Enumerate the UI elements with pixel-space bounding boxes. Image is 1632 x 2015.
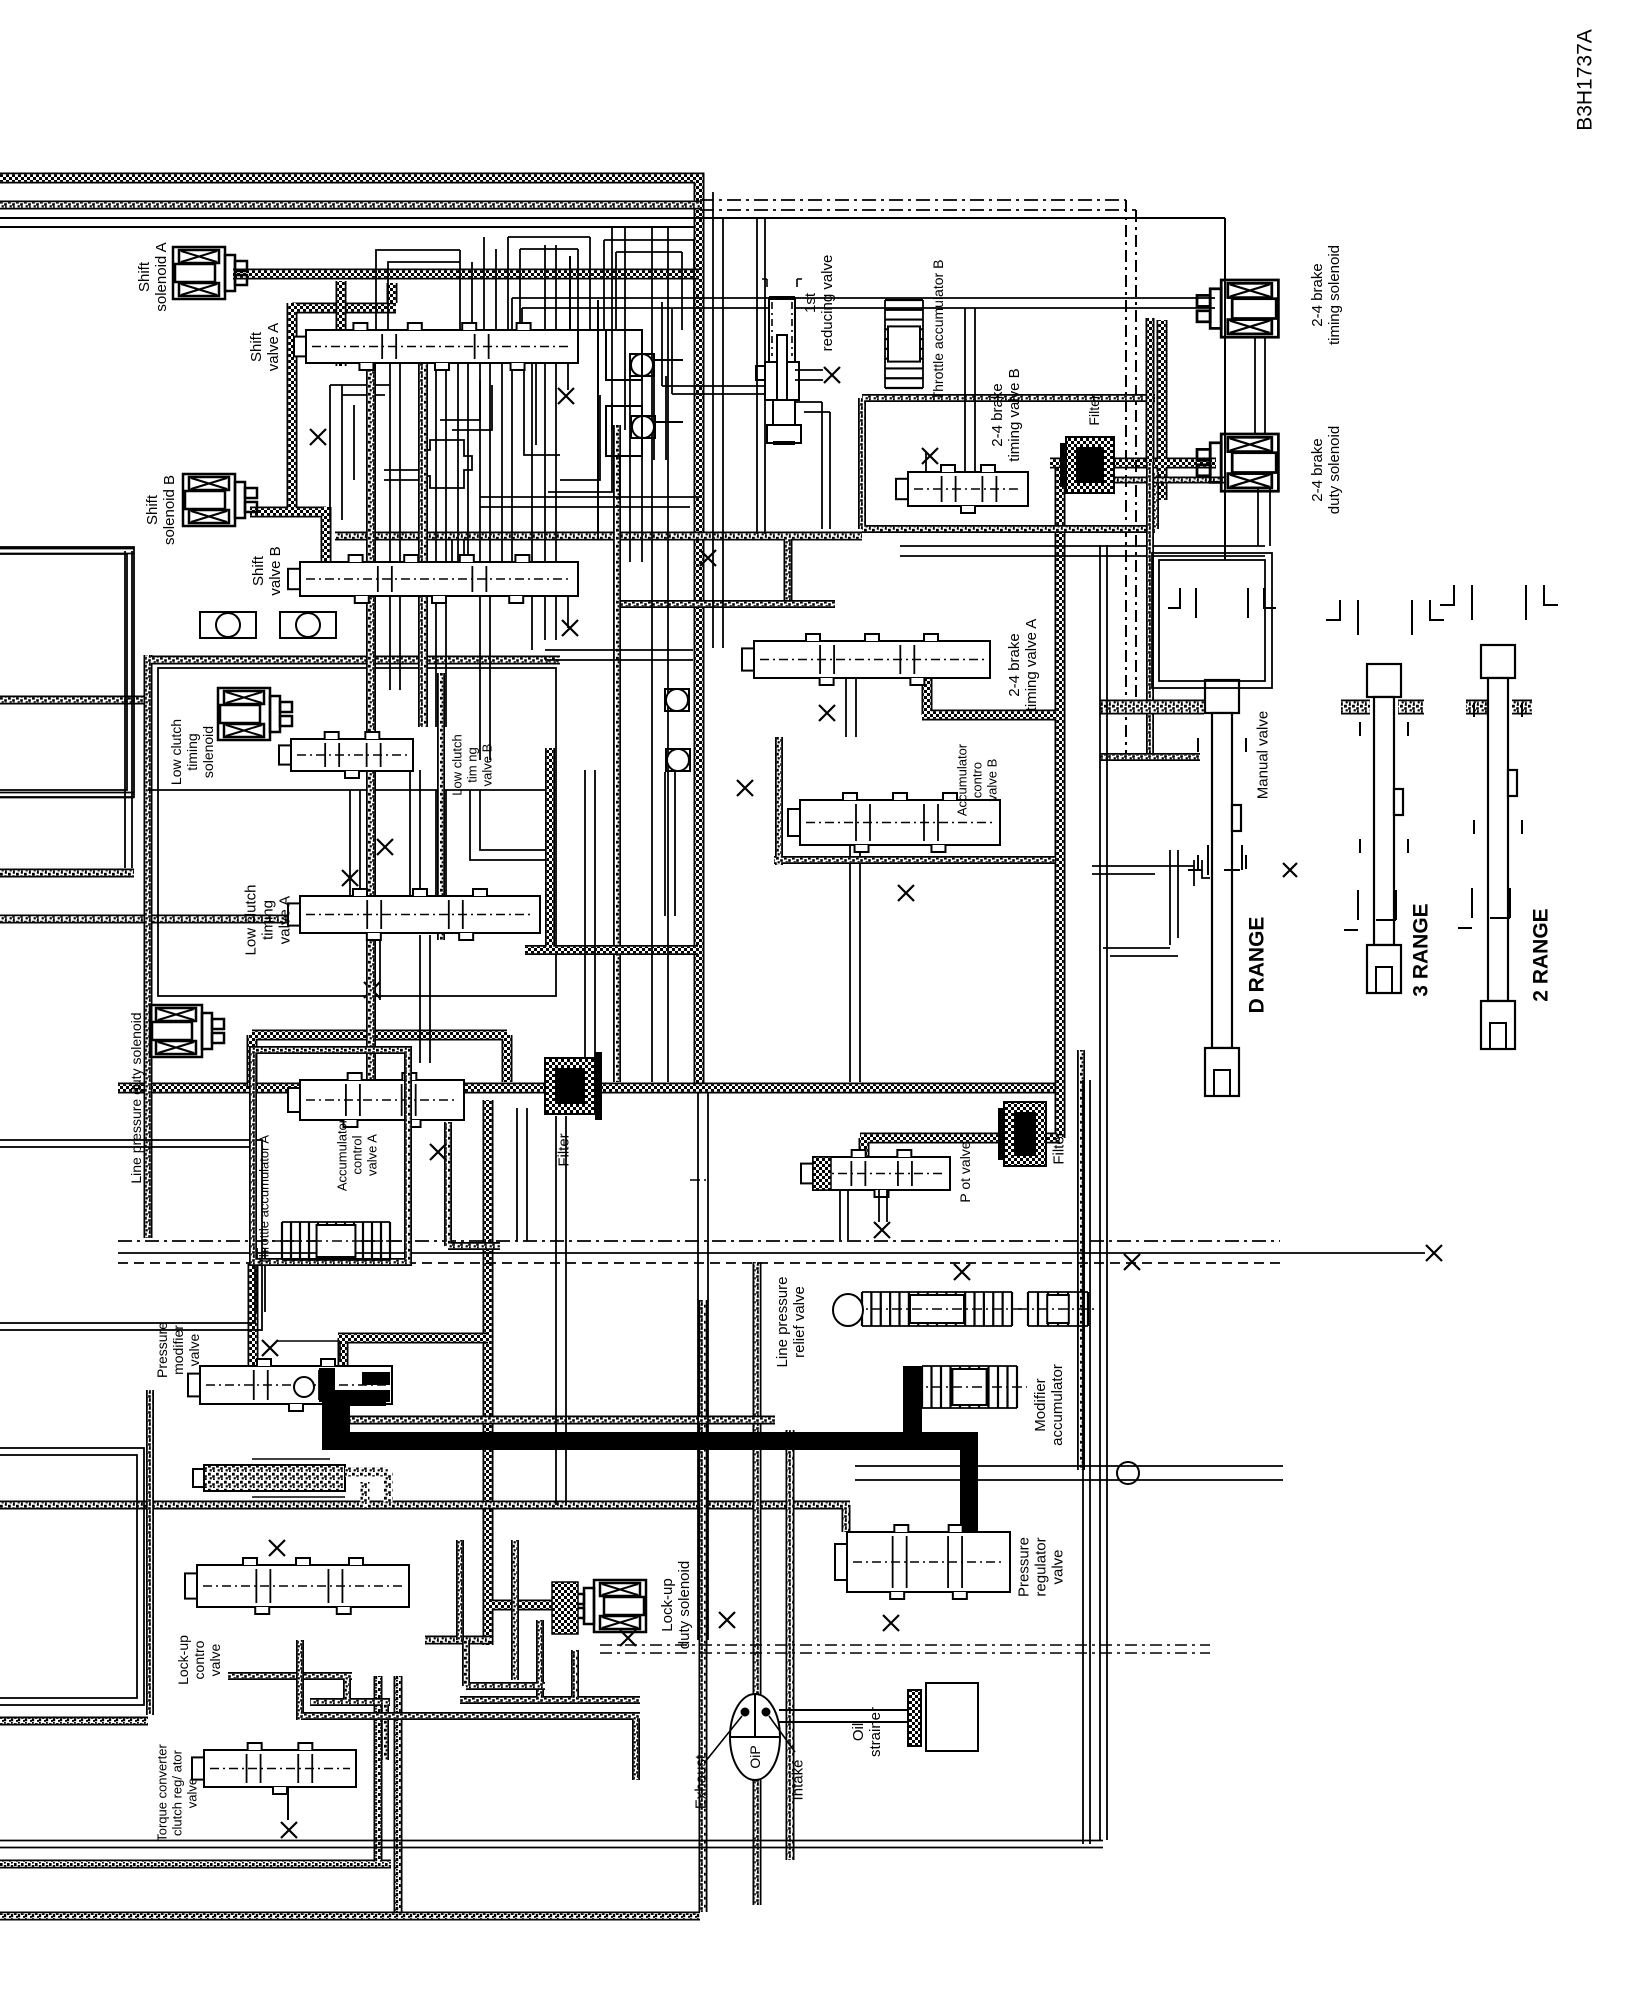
svg-text:Accumulator: Accumulator [955,743,970,816]
wire stipple vertical A [366,363,376,1080]
valve lock-up control valve [185,1558,409,1614]
node manual valve housing box [1152,553,1272,688]
svg-text:Oil: Oil [850,1723,867,1741]
svg-text:duty solenoid: duty solenoid [676,1561,693,1649]
valve shift valve B [288,555,578,603]
svg-text:Low clutch: Low clutch [168,719,184,785]
wire accumulator drop pair [257,1248,265,1312]
valve manual valve (D range) [1198,680,1246,1096]
wire modifier black pipe (thick) [322,1366,978,1592]
wire bottom return line 1 [0,1676,398,1916]
wire right interconnect verticals [545,227,668,1082]
wire left frame line 1 [0,696,152,705]
wire manual valve lower channel [1100,753,1200,761]
svg-text:Lock-up: Lock-up [175,1635,191,1685]
wire shift valve A inlet pipe [336,281,347,366]
filter pilot filter [998,1102,1046,1166]
svg-text:Low clutch: Low clutch [450,734,465,795]
svg-text:timing: timing [184,733,200,770]
svg-text:OiP: OiP [747,1745,763,1768]
valve low clutch timing valve B [279,732,413,778]
wire lock-up control plumbing [228,1676,390,1760]
exhaust X [922,448,938,464]
wire right vertical dash line [1126,200,1136,757]
svg-text:Line pressure duty solenoid: Line pressure duty solenoid [128,1012,144,1183]
wire oil pump suction line [703,1262,790,1912]
svg-text:2 RANGE: 2 RANGE [1529,908,1552,1001]
wire 2-4 timing feed vertical (hatched) [1146,318,1155,463]
wire regulator feedback line [855,1466,1283,1480]
wire shift valve B outlet line [335,536,862,604]
svg-text:Accumulator: Accumulator [335,1118,350,1191]
filter oil strainer [779,1683,978,1751]
node low clutch assembly box [148,668,556,996]
exhaust X [364,982,380,998]
wire line pressure solid line [118,1252,1425,1254]
svg-text:Pressure: Pressure [1015,1537,1032,1597]
wire 2-4 brake box frame (stippled) [862,398,1155,529]
wire pressure modifier feed pipe [248,1264,259,1378]
svg-text:valve A: valve A [276,896,293,944]
wire manual valve inlet channel [1100,700,1204,715]
solenoid line pressure duty solenoid [150,1005,224,1057]
svg-text:solenoid B: solenoid B [161,475,178,545]
node left apply block (rectangle) [0,1140,262,1330]
svg-text:Shift: Shift [250,555,267,586]
wire 2-4 brake timing valve A outlet pipe [922,660,1056,715]
wire filter drop pair [556,1116,566,1505]
solenoid lock-up duty solenoid [572,1580,646,1632]
valve low clutch timing valve A [288,889,540,940]
node range port brackets [1168,585,1558,930]
svg-text:valve: valve [185,1778,200,1808]
valve pressure modifier valve [188,1359,392,1411]
exhaust X [824,367,840,383]
svg-text:Low clutch: Low clutch [242,885,259,956]
wire 2-4 timing solenoid feed [512,218,1215,534]
exhaust X [310,429,326,445]
wire duty solenoid return line [1085,477,1225,484]
wire D range port line [1092,860,1210,886]
svg-text:valve B: valve B [267,546,284,595]
svg-text:Modifier: Modifier [1032,1378,1049,1431]
svg-text:Pressure: Pressure [154,1322,170,1378]
wire manual valve left elbow [1103,850,1178,956]
exhaust X [620,1630,636,1646]
wire modifier X bracket [277,1341,340,1360]
svg-text:Shift: Shift [144,494,161,525]
exhaust X [1283,863,1297,877]
svg-text:solenoid: solenoid [200,726,216,778]
wire manual valve feed vertical [1146,463,1154,757]
svg-text:Filter: Filter [1050,1131,1067,1164]
exhaust X [262,1340,278,1356]
svg-text:valve A: valve A [365,1134,380,1176]
svg-text:Shift: Shift [136,261,153,292]
wire left frame lower edge [0,793,134,798]
wire 2-4 brake frame lower [615,600,835,608]
wire accumulator control valve B frame [774,737,1055,865]
wire 2-4 box to manual valve lines [900,546,1265,556]
exhaust X [874,1222,890,1238]
svg-text:valve: valve [1049,1549,1066,1584]
node left servo block (rectangle) [0,1448,144,1705]
wire converter return plumbing [300,1640,640,1780]
svg-text:B3H1737A: B3H1737A [1573,29,1596,131]
svg-text:timing valve A: timing valve A [1023,619,1040,712]
wire main body bottom edge [0,1841,1103,1848]
svg-text:2-4 brake: 2-4 brake [1309,438,1326,501]
svg-text:relief valve: relief valve [791,1286,808,1358]
svg-text:strainer: strainer [867,1707,884,1757]
svg-text:2-4 brake: 2-4 brake [1309,263,1326,326]
svg-text:accumulator: accumulator [1049,1364,1066,1446]
svg-text:Throttle accumulator B: Throttle accumulator B [930,260,946,401]
svg-text:timing: timing [259,900,276,940]
wire regulator dash bundle [600,1645,1210,1653]
svg-text:solenoid A: solenoid A [153,242,170,311]
wire low clutch valve B drop (stipple) [437,673,445,940]
exhaust X [342,870,358,886]
svg-text:Lock-up: Lock-up [659,1578,676,1631]
wire low clutch outlet pipe (hatched) [525,748,698,950]
wire left frame line 2 [0,869,134,878]
svg-text:Manual valve: Manual valve [1254,711,1271,799]
svg-text:Line pressure: Line pressure [774,1277,791,1368]
valve 2-4 brake timing valve A [742,634,990,685]
wire torque converter in line [0,1717,148,1726]
solenoid shift solenoid B [183,474,257,526]
node document number B3H1737A [1573,29,1596,131]
node central ladder frames upper [376,237,590,330]
capacitor throttle accumulator A spring [272,1222,400,1260]
wire lock-up apply line [322,1416,775,1425]
wire main line pressure pipe (top, hatched) [0,178,699,1086]
svg-text:Intake: Intake [789,1760,806,1801]
wire lock-up duty solenoid pipe [488,1100,556,1645]
svg-text:D RANGE: D RANGE [1245,917,1268,1014]
wire reducing valve outlet elbow [796,402,830,529]
wire pilot pressure main pipe (horizontal, hatched) [118,1083,1058,1094]
exhaust X [737,780,753,796]
wire center feed verticals [713,192,723,648]
wire line pressure duty pipe to filter [252,1035,507,1086]
svg-text:valve: valve [207,1643,223,1676]
valve shift valve A [294,323,578,370]
valve 2-4 brake timing valve B [896,465,1028,513]
wire left frame right edge [125,551,132,868]
wire lockup drain stub [425,1636,490,1645]
wire stipple vertical B [418,363,428,727]
svg-text:reducing valve: reducing valve [819,255,836,352]
pump oil pump [705,1694,795,1780]
wire shift solenoid B branch pipe [250,283,396,596]
svg-text:Filter: Filter [555,1133,572,1166]
exhaust X [898,885,914,901]
svg-text:duty solenoid: duty solenoid [1326,426,1343,514]
wire 2 range inlet channel [1466,700,1532,715]
solenoid 2-4 brake timing solenoid [1197,280,1278,337]
svg-text:P ot valve: P ot valve [957,1141,973,1202]
node check ball housings [200,256,683,638]
svg-text:2-4 brake: 2-4 brake [989,383,1006,446]
exhaust X [281,1822,297,1838]
exhaust X [700,550,716,566]
wire 3 range inlet channel [1341,700,1424,715]
svg-text:contro: contro [191,1640,207,1679]
svg-text:Torque converter: Torque converter [155,1744,170,1842]
filter 2-4 brake filter [1060,437,1114,493]
svg-text:control: control [350,1135,365,1174]
exhaust X [954,1264,970,1280]
exhaust X [562,620,578,636]
capacitor modifier accumulator spring [912,1366,1027,1408]
node left clutch block (rectangle) [0,547,134,797]
wire line pressure dash line [118,1240,1280,1242]
filter main filter [545,1052,602,1120]
svg-text:Throttle accumulator A: Throttle accumulator A [257,1135,272,1265]
valve 1st reducing valve (vertical) [756,279,823,443]
wire left frame vertical (lower) [146,1390,154,1715]
svg-text:Shift: Shift [248,331,265,362]
valve pressure regulator valve [835,1525,1010,1599]
wire torque converter supply line (stippled) [0,201,700,210]
wire left frame top edge [0,549,134,554]
wire center channel vertical pair (below junction) [698,1093,708,1640]
wire low clutch box border (stippled) [148,655,560,1238]
wire pilot valve stems [840,1190,887,1240]
exhaust X [1124,1254,1140,1270]
wire lock-up valve verticals [460,1540,640,1700]
solenoid low clutch timing solenoid [218,688,292,740]
exhaust X [819,705,835,721]
solenoid 2-4 brake duty solenoid [1197,434,1278,491]
valve manual valve 3 range [1360,664,1408,993]
exhaust X [269,1540,285,1556]
valve lock-up accumulator piston (stipple filled) [193,1459,388,1508]
solenoid lock-up duty hatched mount [552,1582,578,1634]
node check ball circles [216,354,1139,1484]
svg-text:valve B: valve B [480,744,495,787]
svg-text:valve A: valve A [265,323,282,371]
wire main body right edge pair 2 [1100,545,1107,1840]
svg-text:timing valve B: timing valve B [1006,368,1023,461]
valve pilot valve hatched end [813,1157,831,1190]
wire accumulator valve A drain [448,1122,500,1246]
exhaust X [719,1612,735,1628]
wire throttle accumulator A frame [253,1050,408,1262]
wire converter pressure line (bottom stippled) [0,1505,850,1532]
wire shift valve interconnect verticals [390,363,512,562]
exhaust X [1426,1245,1442,1261]
wire valve A to B verticals right [532,363,568,562]
exhaust X [430,1144,446,1160]
exhaust X [558,388,574,404]
node central ladder frames right [604,240,694,562]
exhaust X [883,1615,899,1631]
svg-text:modifier: modifier [170,1325,186,1375]
wire shift valve B lower verticals [390,596,568,896]
capacitor line pressure relief valve spring [852,1292,1022,1326]
svg-text:1st: 1st [802,292,819,313]
capacitor throttle accumulator B coil [885,300,923,388]
valve pressure modifier black lands [319,1368,390,1402]
valve accumulator control valve A [288,1073,464,1127]
wire valve interconnect maze [330,363,700,562]
svg-text:regulator: regulator [1032,1537,1049,1596]
svg-text:clutch reg/ ator: clutch reg/ ator [170,1749,185,1836]
valve accumulator control valve B [788,793,1000,852]
svg-text:contro: contro [970,762,985,798]
wire line pressure dash line 2 [118,1262,1280,1264]
valve pressure modifier spool detail [294,1377,314,1397]
valve pilot valve [801,1150,950,1197]
svg-text:3 RANGE: 3 RANGE [1409,903,1432,996]
wire thin supply line 2 [0,226,695,228]
svg-text:2-4 brake: 2-4 brake [1006,633,1023,696]
wire right stipple vertical [1077,1050,1085,1470]
svg-text:valve B: valve B [985,759,1000,802]
wire dash-dot supply lines right [700,200,1136,210]
wire duty solenoid drop pair [1255,338,1270,546]
svg-text:valve: valve [186,1333,202,1366]
wire low clutch interconnects [350,650,860,1241]
svg-text:Exhaust: Exhaust [692,1754,709,1809]
wire pilot valve to filter pipe [860,468,1060,1163]
wire modifier to lockup pipe [338,1338,488,1372]
wire 1st reducing valve feed [662,302,769,394]
wire 2-4 brake frame left [613,425,621,1082]
solenoid shift solenoid A [173,247,247,299]
wire lock-up extra plumbing [466,1640,545,1686]
wire shift solenoid A supply pipe [233,269,699,280]
svg-text:tim ng: tim ng [465,747,480,782]
wire low clutch valve A feed line [0,915,308,924]
valve manual valve 2 range [1474,645,1522,1049]
wire bottom return line 2 [0,1912,700,1921]
wire 2-4 brake duty pipe (hatched) [1050,320,1216,500]
wire thin supply line 1 [0,218,1225,560]
svg-text:Filter: Filter [1086,394,1102,425]
valve torque converter clutch regulator valve [192,1743,356,1794]
exhaust X [377,839,393,855]
svg-text:timing solenoid: timing solenoid [1326,245,1343,345]
